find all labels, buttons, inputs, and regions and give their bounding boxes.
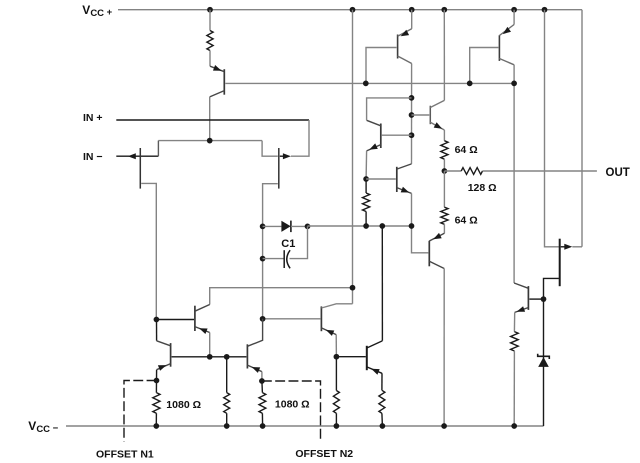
node VCC+/R1 (207, 7, 213, 13)
wire Q3 base jog (470, 48, 499, 84)
transistor Q13 emitter (367, 367, 382, 373)
svg-text:1080 Ω: 1080 Ω (275, 399, 310, 411)
wire Q13 emitter down (381, 373, 383, 390)
node diode row / Q5 emitter (409, 223, 415, 229)
wire R6 top lead (155, 381, 157, 393)
node Q1 base line / Q3 collector (511, 81, 517, 87)
wire Q9 emitter down (209, 333, 211, 357)
jfet J3 channel bar (559, 239, 561, 287)
transistor Q3 emitter (499, 25, 514, 36)
dashed OFFSET N2 pickoff (262, 381, 321, 441)
svg-text:OFFSET N2: OFFSET N2 (295, 448, 353, 460)
wire mid column VCC+ down to Q10 collector (352, 10, 354, 304)
jfet J1 drain arm (157, 141, 159, 157)
svg-text:OFFSET N1: OFFSET N1 (96, 449, 154, 461)
wire Q6 emitter lead (443, 130, 445, 141)
wire J3 drain column (545, 10, 559, 247)
resistor R11 (511, 332, 519, 351)
node Darlington / Q4 base (409, 132, 415, 138)
node Q12 emitter / OFFSET N2 / R8 (259, 378, 265, 384)
node Darlington top / Q4 collector (409, 95, 415, 101)
transistor Q2 bar (397, 35, 399, 59)
wire input-pair drain rail (158, 140, 262, 142)
wire VCC+ top rail (118, 9, 582, 11)
wire Q2 emitter lead (411, 10, 413, 29)
wire Q8 base (529, 298, 543, 300)
transistor Q9 collector (195, 305, 210, 312)
wire R7 top lead (226, 357, 228, 393)
jfet J2 source arm (263, 184, 278, 319)
node VCC-/R8 (260, 423, 266, 429)
transistor Q5 emitter arrow (NPN) (401, 187, 410, 193)
svg-text:128 Ω: 128 Ω (468, 182, 497, 194)
transistor Q5 bar (396, 167, 398, 192)
transistor Q1 collector (210, 91, 225, 97)
node VCC-/R6 (153, 423, 159, 429)
wire Q11 emitter down (156, 370, 158, 381)
node VCC-/R11 (511, 423, 517, 429)
wire IN+ down to J2 gate (291, 120, 309, 156)
jfet J3 gate arrow (564, 244, 572, 250)
transistor Q2 emitter arrow (PNP) (401, 30, 410, 36)
node VCC-/R10 (380, 423, 386, 429)
wire R8 bottom lead (261, 413, 263, 426)
node D1 cathode / C1 right plate (305, 224, 311, 230)
wire Q13 collector column (381, 226, 383, 341)
resistor R10 (379, 390, 385, 413)
wire OUT line (483, 170, 597, 172)
wire Q1 collector to input rail (209, 97, 211, 141)
resistor R3 128 (461, 168, 482, 175)
wire J3 source arm (544, 278, 559, 426)
transistor Q3 collector (499, 59, 514, 65)
diode D1 triangle (281, 221, 290, 232)
wire R4 top lead (443, 171, 445, 207)
wire D1 anode lead (263, 225, 282, 227)
transistor Q12 emitter (247, 365, 262, 372)
jfet J2 drain arm (262, 141, 278, 157)
node VCC+/Q2 emitter (409, 7, 415, 13)
resistor R1 (207, 31, 213, 51)
wire R5 top lead (365, 179, 367, 193)
wire R1 bottom lead (209, 51, 211, 67)
jfet J2 channel bar (278, 148, 280, 189)
transistor Q6 emitter (430, 122, 444, 130)
wire R8 top lead (261, 381, 264, 393)
svg-text:1080 Ω: 1080 Ω (166, 399, 201, 411)
node Q1 base line / Q2 base (363, 81, 369, 87)
wire VCC- bottom rail (66, 425, 544, 427)
node VCC+/Q6 collector (441, 7, 447, 13)
transistor Q1 emitter (210, 66, 224, 72)
node base line / Q9 emitter (207, 354, 213, 360)
wire C1 left lead (263, 258, 285, 260)
capacitor C1 straight plate (283, 250, 285, 268)
transistor Q8 bar (527, 286, 529, 310)
node VCC+/Q3 emitter (511, 7, 517, 13)
wire Q10 base line (263, 318, 321, 320)
wire Q2 collector down Darlington node (411, 64, 413, 164)
transistor Q2 collector (398, 56, 412, 64)
wire Q4 base (382, 134, 412, 136)
wire R9 top lead (335, 357, 337, 391)
node Q8 base / J3 source column (541, 296, 547, 302)
resistor R7 (224, 393, 230, 414)
wire C1 right lead (290, 226, 308, 258)
node VCC+/mid column (350, 7, 356, 13)
jfet J1 channel bar (139, 148, 141, 189)
wire IN- line (116, 155, 158, 157)
node VCC-/Q7 collector (441, 423, 447, 429)
wire right column from VCC+ rail end down to J3 gate (581, 10, 583, 247)
wire R5 bottom lead (365, 212, 367, 227)
node Darlington / Q6 base (409, 112, 415, 118)
jfet J1 gate arrow (128, 153, 136, 159)
transistor Q6 bar (429, 106, 431, 125)
transistor Q5 collector (397, 164, 412, 169)
transistor Q10 emitter arrow (PNP) (326, 330, 335, 336)
resistor R6 1080 (153, 393, 160, 414)
wire Q2 base jog (366, 48, 397, 84)
transistor Q4 emitter arrow (NPN) (369, 143, 378, 149)
wire IN+ line (116, 119, 309, 121)
transistor Q8 emitter (515, 308, 529, 313)
svg-text:IN +: IN + (83, 112, 103, 124)
wire Q13 base line (336, 356, 365, 358)
node J2 source / D1 anode line (260, 224, 266, 230)
resistor R2 64 (441, 141, 448, 160)
transistor Q3 bar (498, 35, 500, 61)
wire Q12 emitter down (261, 372, 263, 381)
transistor Q1 emitter arrow (PNP) (213, 65, 222, 71)
transistor Q4 emitter (367, 145, 381, 151)
resistor R4 64 (441, 207, 448, 224)
node diode row / Q13 collector feed (379, 223, 385, 229)
transistor Q8 collector (514, 283, 528, 288)
transistor Q8 emitter arrow (NPN) (517, 306, 526, 312)
jfet J2 gate lead (280, 155, 284, 157)
capacitor C1 curved plate (287, 250, 290, 268)
wire R4 bottom lead (443, 224, 445, 233)
node input rail / Q1 collector (207, 138, 213, 144)
transistor Q9 emitter (195, 327, 210, 333)
svg-text:C1: C1 (281, 238, 295, 250)
wire R1 top lead (209, 10, 211, 31)
wire D1 cathode to dot (291, 225, 308, 227)
jfet J1 source arm (141, 183, 156, 319)
transistor Q10 collector (321, 304, 352, 308)
transistor Q13 bar (366, 346, 368, 370)
transistor Q3 emitter arrow (PNP) (503, 27, 511, 34)
wire Q3 emitter lead (513, 10, 515, 25)
wire Q6 collector up (443, 10, 445, 101)
wire R11 bottom lead (513, 351, 515, 426)
wire Q7 collector down (443, 269, 445, 427)
wire Q11/Q12 base line (172, 356, 247, 358)
transistor Q11 emitter arrow (PNP) (158, 365, 167, 371)
node output node (R2/R3/R4) (442, 168, 448, 174)
transistor Q7 emitter (429, 233, 444, 241)
transistor Q11 bar (170, 343, 172, 367)
transistor Q7 bar (428, 241, 430, 266)
diode D1 cathode bar (290, 221, 292, 233)
transistor Q6 collector (430, 100, 444, 107)
wire Q1 base line to Q2/Q3 bases (225, 82, 514, 84)
node diode row / R5 (363, 223, 369, 229)
jfet J2 gate arrow (283, 153, 291, 159)
wire Q11 collector up (156, 320, 158, 341)
wire Q9 base line (156, 319, 194, 321)
wire R9 bottom lead (335, 413, 337, 426)
transistor Q11 collector (157, 341, 171, 346)
wire Q10 emitter down (335, 335, 337, 357)
transistor Q9 bar (194, 306, 196, 331)
transistor Q4 bar (380, 124, 382, 149)
node J2 source / Q10 base / Q12 collector (260, 316, 266, 322)
diode D2 zener cathode bar (538, 354, 550, 359)
wire Q5 emitter down to Q7 base (412, 193, 429, 252)
resistor R8 1080 (259, 393, 266, 414)
svg-text:IN −: IN − (83, 151, 103, 163)
node J1 source / Q9 base / Q11 collector (154, 317, 160, 323)
transistor Q11 emitter (157, 364, 171, 370)
node Q1 base line / Q3 base (467, 81, 473, 87)
dashed OFFSET N1 pickoff (124, 381, 157, 442)
wire Q8 emitter lead (513, 312, 515, 331)
wire Q4 emitter down (365, 151, 368, 179)
transistor Q12 emitter arrow (PNP) (252, 367, 261, 373)
wire R2 bottom lead (443, 159, 445, 171)
transistor Q7 emitter arrow (PNP) (433, 233, 442, 239)
node Q4 emitter / Q5 base / R5 (363, 176, 369, 182)
node C1 left plate / J2 source (260, 256, 266, 262)
transistor Q10 emitter (321, 328, 336, 335)
wire R6 bottom lead (155, 413, 157, 426)
node VCC-/R7 (224, 423, 230, 429)
transistor Q12 bar (246, 344, 248, 368)
transistor Q12 collector (247, 319, 262, 347)
svg-text:OUT: OUT (606, 167, 630, 179)
svg-text:64 Ω: 64 Ω (455, 215, 478, 227)
wire Q3 collector down to Q8 (513, 65, 515, 283)
transistor Q6 emitter arrow (NPN) (434, 122, 443, 129)
transistor Q5 emitter (397, 188, 412, 194)
wire Q6 base (412, 114, 430, 116)
transistor Q1 bar (223, 69, 225, 95)
wire Q5 base (366, 178, 396, 180)
node Q10 emitter / Q13 base / R9 (334, 354, 340, 360)
transistor Q7 collector (429, 261, 444, 268)
diode D2 zener triangle (538, 357, 549, 367)
node Q11 emitter / OFFSET N1 / R6 (154, 378, 160, 384)
wire diode row to Q5 emitter column (308, 225, 412, 227)
transistor Q4 collector (367, 120, 381, 126)
wire R3 left lead (444, 170, 461, 172)
node VCC+/J3 drain (542, 7, 548, 13)
transistor Q9 emitter arrow (PNP) (199, 328, 208, 334)
wire R7 bottom lead (226, 413, 228, 426)
wire Q9 collector row (210, 288, 353, 305)
transistor Q2 emitter (398, 29, 412, 36)
resistor R9 (333, 391, 339, 414)
transistor Q10 bar (320, 306, 322, 331)
jfet J3 gate lead (561, 246, 565, 248)
node VCC-/R9 (334, 423, 340, 429)
wire Q4 collector jog (367, 98, 412, 120)
wire J3 gate to right column (572, 246, 582, 248)
svg-text:64 Ω: 64 Ω (455, 144, 478, 156)
node mid column / Q9-Q10 collector row (350, 285, 356, 291)
transistor Q13 collector (367, 341, 383, 348)
transistor Q13 emitter arrow (PNP) (371, 369, 380, 375)
node base line / R7 (224, 354, 230, 360)
wire R10 bottom lead (381, 413, 384, 426)
resistor R5 (363, 193, 370, 212)
